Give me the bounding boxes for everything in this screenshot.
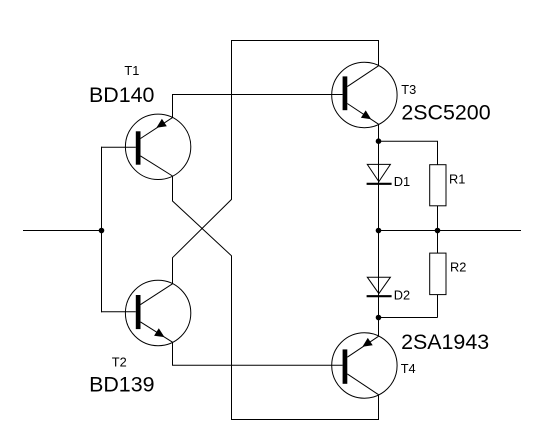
svg-text:R2: R2 [450, 259, 466, 274]
svg-text:T3: T3 [401, 82, 416, 97]
svg-text:2SC5200: 2SC5200 [401, 101, 490, 125]
svg-text:T1: T1 [124, 63, 139, 78]
svg-text:BD140: BD140 [89, 83, 155, 107]
svg-text:BD139: BD139 [89, 372, 154, 396]
svg-text:2SA1943: 2SA1943 [401, 330, 489, 354]
svg-text:D1: D1 [394, 174, 410, 189]
svg-text:T2: T2 [112, 354, 127, 369]
svg-text:T4: T4 [401, 361, 416, 376]
svg-text:D2: D2 [394, 287, 410, 302]
svg-text:R1: R1 [449, 172, 465, 187]
